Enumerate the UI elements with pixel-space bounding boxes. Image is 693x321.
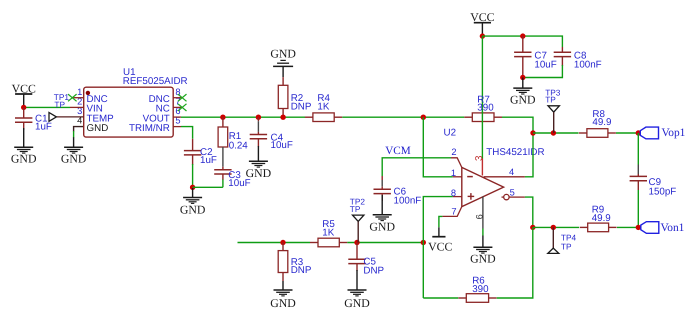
svg-text:2: 2 bbox=[451, 147, 456, 157]
wire VCM bbox=[382, 158, 451, 176]
wire R3 to GND bbox=[282, 281, 284, 290]
wire C2 to gnd node bbox=[192, 164, 194, 187]
node TP3 node bbox=[551, 130, 556, 135]
capacitor C7 bbox=[514, 36, 557, 77]
U2 pin 8 (+) bbox=[451, 188, 474, 200]
node OUT- node bbox=[530, 225, 535, 230]
U2 pin 4 bbox=[484, 167, 525, 177]
svg-text:GND: GND bbox=[61, 152, 87, 166]
node VCC node bbox=[480, 33, 485, 38]
svg-text:REF5025AIDR: REF5025AIDR bbox=[123, 76, 188, 87]
svg-text:GND: GND bbox=[246, 166, 272, 180]
svg-text:GND: GND bbox=[344, 296, 370, 310]
U1 pin 6 lead bbox=[173, 116, 181, 118]
svg-text:1uF: 1uF bbox=[200, 155, 217, 166]
testpoint TP3 bbox=[545, 88, 561, 133]
node Von1 node bbox=[636, 225, 641, 230]
wire C7/C8 bottom bbox=[523, 65, 563, 78]
wire VOUT rail mid bbox=[342, 116, 464, 118]
wire rail to corner down bbox=[502, 117, 533, 133]
svg-text:GND: GND bbox=[180, 202, 206, 216]
power VCC bbox=[12, 81, 36, 107]
svg-text:100nF: 100nF bbox=[574, 60, 602, 71]
svg-text:Vop1: Vop1 bbox=[662, 127, 686, 139]
capacitor C8 bbox=[554, 47, 602, 71]
wire to Von1 bbox=[617, 226, 638, 228]
node Vop1 node bbox=[636, 130, 641, 135]
wire gnd node to C3 bbox=[193, 186, 223, 188]
svg-text:TP: TP bbox=[545, 94, 556, 104]
testpoint label TP1 bbox=[54, 92, 70, 110]
node C2/C3/GND bbox=[190, 185, 195, 190]
capacitor C4 bbox=[250, 117, 293, 151]
U2 pin 2 bbox=[451, 147, 462, 167]
wire OUT- down bbox=[525, 197, 533, 227]
wire IN+ column bbox=[423, 197, 453, 298]
ground bbox=[369, 215, 395, 234]
svg-text:GND: GND bbox=[369, 219, 395, 233]
svg-text:10uF: 10uF bbox=[271, 140, 293, 151]
ground bbox=[470, 236, 496, 266]
no-connect X pin 7 bbox=[178, 104, 187, 111]
svg-text:DNP: DNP bbox=[291, 101, 312, 112]
svg-text:VCC: VCC bbox=[428, 240, 452, 254]
svg-text:TRIM/NR: TRIM/NR bbox=[129, 123, 170, 134]
node rail/C4 bbox=[256, 115, 261, 120]
U1 pin 5 lead bbox=[173, 126, 181, 128]
svg-text:U2: U2 bbox=[444, 128, 457, 139]
svg-text:6: 6 bbox=[475, 214, 485, 219]
wire R6 right up bbox=[497, 227, 533, 298]
svg-text:GND: GND bbox=[270, 296, 296, 310]
wire C3 down bbox=[222, 180, 224, 188]
resistor R8 bbox=[579, 109, 616, 137]
U1 right pin names bbox=[129, 94, 170, 134]
wire to Vop1 bbox=[616, 132, 638, 134]
power VCC bbox=[470, 10, 494, 36]
node OUT+ node bbox=[530, 130, 535, 135]
svg-text:1: 1 bbox=[77, 87, 82, 97]
svg-text:1K: 1K bbox=[317, 101, 329, 112]
U1 pin 8 lead bbox=[173, 97, 182, 99]
ground bbox=[11, 147, 37, 165]
resistor R4 bbox=[305, 93, 342, 122]
wire OUT+ up bbox=[525, 133, 533, 177]
svg-text:GND: GND bbox=[510, 92, 536, 106]
U1 pin 1 lead bbox=[72, 97, 83, 99]
U1 left pin names bbox=[87, 94, 115, 134]
wire out- rail bbox=[533, 226, 579, 228]
svg-text:1uF: 1uF bbox=[35, 122, 52, 133]
svg-text:7: 7 bbox=[451, 206, 456, 216]
wire to U2 IN- bbox=[423, 117, 453, 177]
svg-text:0.24: 0.24 bbox=[229, 141, 249, 152]
node C7 bottom bbox=[520, 75, 525, 80]
U2 pin 7 bbox=[442, 206, 461, 216]
svg-text:49.9: 49.9 bbox=[592, 117, 611, 128]
ground bbox=[344, 290, 370, 310]
capacitor C6 bbox=[374, 176, 422, 207]
svg-text:THS4521IDR: THS4521IDR bbox=[486, 147, 544, 158]
node rail/R1 bbox=[220, 115, 225, 120]
resistor R7 bbox=[464, 94, 502, 121]
port Von1 bbox=[641, 222, 685, 234]
no-connect X pin 1 bbox=[68, 94, 77, 101]
node VCC/C1 bbox=[21, 105, 26, 110]
svg-text:TP: TP bbox=[561, 242, 572, 252]
svg-text:100nF: 100nF bbox=[394, 196, 422, 207]
port Vop1 bbox=[640, 127, 685, 139]
svg-text:VCC: VCC bbox=[12, 81, 36, 95]
svg-text:10uF: 10uF bbox=[534, 60, 556, 71]
wire C4 to GND bbox=[257, 146, 259, 161]
op-amp U2 THS4521IDR bbox=[444, 128, 545, 207]
U1 pin 7 lead bbox=[173, 106, 182, 108]
svg-text:4: 4 bbox=[509, 167, 514, 177]
U2 pin 6 bbox=[475, 197, 485, 229]
node TP4 node bbox=[551, 225, 556, 230]
wire C9 top lead bbox=[637, 165, 639, 175]
svg-text:390: 390 bbox=[472, 284, 489, 295]
node rail/pin1 bbox=[421, 115, 426, 120]
wire R1 to C3 bbox=[222, 147, 224, 167]
svg-text:TP: TP bbox=[350, 204, 361, 214]
wire input rail left bbox=[238, 242, 311, 244]
svg-text:150pF: 150pF bbox=[649, 186, 677, 197]
svg-text:GND: GND bbox=[270, 47, 296, 61]
svg-text:TP: TP bbox=[54, 100, 65, 110]
U2 pin 1 (-) bbox=[451, 168, 473, 178]
svg-text:GND: GND bbox=[470, 251, 496, 265]
wire R6 left bbox=[423, 297, 458, 299]
svg-text:1K: 1K bbox=[322, 227, 334, 238]
resistor R2 bbox=[278, 77, 312, 117]
node IN+ node bbox=[421, 240, 426, 245]
svg-text:VCC: VCC bbox=[470, 10, 494, 24]
wire out+ rail bbox=[533, 132, 579, 134]
node C7 top bbox=[520, 33, 525, 38]
U1 pin 2 lead bbox=[70, 106, 84, 108]
U2 pin 5 bbox=[502, 188, 525, 200]
resistor R3 bbox=[278, 243, 312, 282]
wire C9 to Von1 bbox=[637, 190, 639, 227]
wire C1 to GND bbox=[23, 128, 25, 147]
capacitor C5 bbox=[348, 243, 384, 277]
wire VOUT rail left bbox=[181, 116, 305, 118]
svg-text:3: 3 bbox=[474, 155, 485, 161]
svg-text:390: 390 bbox=[477, 103, 494, 114]
op-amp U1 REF5025AIDR box bbox=[84, 67, 188, 137]
wire U1 GND pin bbox=[74, 127, 84, 132]
capacitor C9 bbox=[630, 174, 677, 197]
ground bbox=[246, 161, 272, 180]
testpoint TP2 bbox=[350, 197, 366, 243]
svg-text:GND: GND bbox=[11, 152, 37, 166]
svg-text:VCM: VCM bbox=[385, 145, 411, 157]
svg-text:49.9: 49.9 bbox=[592, 213, 611, 224]
ground bbox=[180, 188, 206, 216]
U1 pin numbers bbox=[77, 87, 180, 126]
svg-text:GND: GND bbox=[87, 123, 109, 134]
wire Vop1 to C9 bbox=[637, 133, 639, 165]
capacitor C3 bbox=[214, 170, 250, 189]
node R3 node bbox=[280, 240, 285, 245]
wire C5 to GND bbox=[356, 270, 358, 290]
testpoint TP4 bbox=[548, 227, 577, 253]
wire VCC to U1 VIN bbox=[24, 106, 70, 108]
node rail/R2 bbox=[280, 115, 285, 120]
resistor R9 bbox=[580, 205, 617, 232]
wire VOCM crossing R7 bbox=[481, 112, 483, 123]
svg-text:DNP: DNP bbox=[291, 265, 312, 276]
wire TRIM to C2 bbox=[181, 127, 193, 139]
testpoint TP (U1 TEMP pin) bbox=[49, 113, 84, 122]
svg-text:1: 1 bbox=[451, 168, 456, 178]
no-connect X pin 8 bbox=[178, 94, 187, 101]
wire pin7 to VCC bbox=[439, 216, 443, 227]
resistor R1 bbox=[218, 117, 248, 151]
U2 pin 3 (VOCM) bbox=[474, 155, 485, 176]
ground (inverted) bbox=[270, 47, 296, 78]
svg-text:5: 5 bbox=[510, 188, 515, 198]
svg-text:DNP: DNP bbox=[363, 266, 384, 277]
wire input rail right bbox=[347, 242, 423, 244]
capacitor C1 bbox=[15, 107, 52, 132]
power VCC (U2 pin7) bbox=[428, 227, 452, 253]
ground bbox=[510, 78, 536, 107]
wire pin6 green bbox=[482, 229, 484, 236]
wire VCC to C8 bbox=[482, 36, 562, 47]
wire VCC to VOCM bbox=[481, 36, 483, 158]
resistor R5 bbox=[310, 219, 347, 247]
ground bbox=[270, 290, 296, 310]
ground bbox=[61, 137, 87, 165]
svg-text:Von1: Von1 bbox=[661, 222, 685, 234]
capacitor C2 bbox=[184, 139, 217, 166]
resistor R6 bbox=[458, 275, 496, 302]
wire bbox=[73, 131, 75, 138]
node TP2/C5 node bbox=[354, 240, 359, 245]
wire C6 to GND bbox=[381, 195, 383, 215]
